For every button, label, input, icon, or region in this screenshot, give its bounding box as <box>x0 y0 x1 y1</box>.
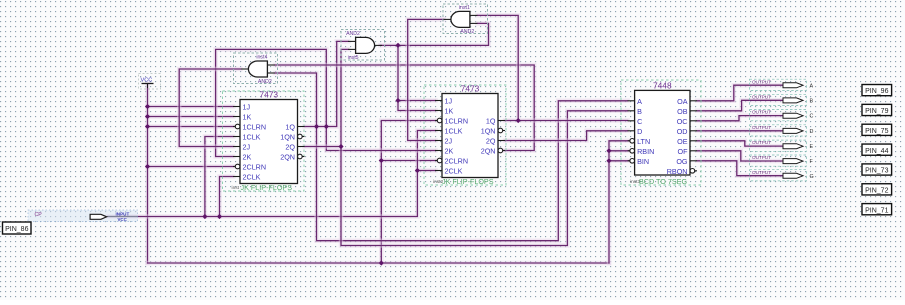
svg-text:VCC: VCC <box>118 217 128 222</box>
pin location box PIN_79 <box>862 104 892 115</box>
wire: VCC bottom bus <box>148 261 610 266</box>
junction: net A at chip 2K riser <box>324 124 329 129</box>
svg-text:PIN_73: PIN_73 <box>865 168 888 175</box>
svg-text:OB: OB <box>677 107 688 116</box>
wire: CP riser to chip1 1CLK <box>205 137 233 217</box>
output pin E <box>750 140 807 151</box>
7448 chip body <box>621 80 701 185</box>
pin 1K <box>233 116 240 118</box>
pin location box PIN_73 <box>862 164 892 175</box>
junction: gate2 output to chip2 1J <box>395 98 400 103</box>
svg-text:VCC: VCC <box>141 78 153 84</box>
output pin symbol C <box>783 113 803 118</box>
wire: VCC branch to 7448 BIN <box>609 159 629 164</box>
wire: VCC branch to chip1 2CLRN <box>148 164 235 169</box>
power symbol VCC <box>139 74 161 90</box>
pin 2QN <box>503 150 505 152</box>
wire: net D from chip2 2Q to 7448 D <box>505 131 628 141</box>
output pin symbol E <box>783 144 803 149</box>
svg-text:OUTPUT: OUTPUT <box>752 155 771 160</box>
pin 2K <box>233 156 240 158</box>
svg-text:A: A <box>637 97 642 106</box>
svg-text:2J: 2J <box>445 137 453 146</box>
svg-text:AND2: AND2 <box>460 29 474 35</box>
svg-text:BIN: BIN <box>637 157 649 166</box>
svg-text:OA: OA <box>677 97 688 106</box>
pin 2QN <box>302 156 304 158</box>
wire: VCC rail vertical from VCC symbol down to bottom VCC bus <box>145 84 150 263</box>
wire: CP riser to chip1 2CLK <box>220 177 234 217</box>
svg-text:E: E <box>810 144 814 150</box>
wire: net A from chip1 1Q to riser of gate2 input1 <box>305 41 349 126</box>
svg-text:OUTPUT: OUTPUT <box>752 110 771 115</box>
wire: 7448 OG to output pin G <box>697 161 783 176</box>
junction: CP to chip1 2CLK <box>217 214 222 219</box>
svg-text:AND2: AND2 <box>346 31 360 37</box>
svg-text:2CLK: 2CLK <box>243 173 261 182</box>
svg-text:LTN: LTN <box>637 137 650 146</box>
svg-text:A: A <box>810 83 814 89</box>
pin D <box>628 130 635 132</box>
junction: 7448 BIN tap <box>606 158 611 163</box>
wire: selected segment of CP wire at input pin <box>108 216 137 218</box>
svg-text:PIN_75: PIN_75 <box>865 128 888 135</box>
svg-text:1CLK: 1CLK <box>445 127 463 136</box>
svg-text:RBON: RBON <box>667 167 688 176</box>
svg-text:OD: OD <box>677 127 688 136</box>
output pin symbol D <box>783 128 803 133</box>
output pin C <box>750 110 807 121</box>
input pin symbol <box>90 214 107 219</box>
pin LTN <box>628 140 630 142</box>
pin 1Q <box>298 126 305 128</box>
pin OB <box>690 110 697 112</box>
pin location box PIN_44 <box>862 144 892 155</box>
svg-text:D: D <box>810 129 814 135</box>
pin location box PIN_71 <box>862 204 892 215</box>
svg-text:PIN_79: PIN_79 <box>865 108 888 115</box>
svg-text:7448: 7448 <box>653 81 672 91</box>
wire: net D-bar from chip2 2QN up to gate1 input1 <box>275 65 534 151</box>
svg-text:inst5: inst5 <box>348 55 359 61</box>
wire: 7448 OD to output pin D <box>697 129 783 134</box>
svg-text:1QN: 1QN <box>280 133 295 142</box>
svg-text:7473: 7473 <box>259 90 278 100</box>
svg-text:1CLRN: 1CLRN <box>243 123 267 132</box>
pin 2CLRN <box>233 166 235 168</box>
pin 2CLK <box>233 176 240 178</box>
pin 1Q <box>498 120 505 122</box>
pin A <box>628 100 635 102</box>
svg-text:PIN_96: PIN_96 <box>865 88 888 95</box>
pin 1QN <box>503 130 505 132</box>
wire: 7448 OE to output pin E <box>697 141 783 146</box>
wire: VCC branch to 7448 RBIN <box>609 149 629 154</box>
svg-text:7473: 7473 <box>461 84 480 94</box>
svg-text:1CLRN: 1CLRN <box>445 117 469 126</box>
output pin D <box>750 125 807 136</box>
svg-text:B: B <box>810 98 814 104</box>
wire: net C from chip2 1Q to 7448 C with tap up to gate3 input1 <box>477 15 627 120</box>
svg-text:OF: OF <box>678 147 689 156</box>
svg-text:BCD TO 7SEG: BCD TO 7SEG <box>639 177 687 186</box>
wire: net B from chip1 2Q up to gate2 input2 and down to bus toward 7448 B <box>305 49 628 245</box>
svg-text:1K: 1K <box>445 107 454 116</box>
junction: 7448 RBIN tap <box>606 148 611 153</box>
svg-text:OUTPUT: OUTPUT <box>752 125 771 130</box>
pin location box PIN_72 <box>862 184 892 195</box>
pin OD <box>690 130 697 132</box>
7473 chip body <box>424 85 506 185</box>
svg-text:2QN: 2QN <box>280 153 295 162</box>
pin 2CLRN <box>435 160 437 162</box>
junction: VCC bus to chip2 CLRN riser <box>379 260 384 265</box>
pin 2K <box>435 150 442 152</box>
wire: VCC branch to chip1 1K <box>148 114 234 119</box>
svg-text:RBIN: RBIN <box>637 147 654 156</box>
pin BIN <box>628 160 630 162</box>
pin location box PIN_86 for input <box>3 222 32 234</box>
pin 1QN <box>302 136 304 138</box>
svg-text:OC: OC <box>677 117 688 126</box>
junction: net C tap to gate3 input1 <box>516 118 521 123</box>
svg-text:inst1: inst1 <box>459 5 470 11</box>
pin C <box>628 120 635 122</box>
svg-text:1Q: 1Q <box>486 117 496 126</box>
wire: VCC riser to 7448 LTN <box>609 141 629 263</box>
pin 1K <box>435 110 442 112</box>
wire: VCC branch to chip1 1J <box>148 104 234 109</box>
pin B <box>628 110 635 112</box>
pin 1CLK <box>233 136 240 138</box>
pin RBON <box>695 170 697 172</box>
output pin symbol A <box>783 83 803 88</box>
pin RBIN <box>628 150 630 152</box>
wire: 7448 OF to output pin F <box>697 151 783 161</box>
pin 2Q <box>498 140 505 142</box>
output pin A <box>750 79 807 90</box>
pin 1CLK <box>435 130 442 132</box>
svg-text:inst: inst <box>232 185 240 191</box>
pin OG <box>690 160 697 162</box>
pin 1CLRN <box>233 126 235 128</box>
output pin B <box>750 94 807 105</box>
svg-text:1J: 1J <box>243 103 251 112</box>
svg-text:C: C <box>810 114 814 120</box>
svg-text:OUTPUT: OUTPUT <box>752 140 771 145</box>
output pin symbol F <box>783 159 803 164</box>
pin 2CLK <box>435 170 442 172</box>
svg-text:OUTPUT: OUTPUT <box>752 94 771 99</box>
pin OC <box>690 120 697 122</box>
7473 chip body <box>223 91 305 191</box>
svg-text:D: D <box>637 127 642 136</box>
pin 2J <box>233 146 240 148</box>
svg-text:2K: 2K <box>445 147 454 156</box>
svg-text:OUTPUT: OUTPUT <box>752 79 771 84</box>
svg-text:OUTPUT: OUTPUT <box>752 170 771 175</box>
junction: VCC to 1K <box>145 114 150 119</box>
AND gate inst4 (mirrored, feeds chip1 2J) <box>234 53 278 84</box>
svg-text:2Q: 2Q <box>486 137 496 146</box>
svg-text:JK FLIP-FLOPS: JK FLIP-FLOPS <box>241 183 293 192</box>
input pin CP (selected) <box>28 210 138 222</box>
AND gate inst5 (feeds chip2 1J 1K) <box>341 30 385 61</box>
svg-text:PIN_44: PIN_44 <box>865 148 888 155</box>
svg-text:PIN_71: PIN_71 <box>865 207 888 214</box>
svg-text:1CLK: 1CLK <box>243 133 261 142</box>
output pin G <box>750 170 807 181</box>
junction: chip2 2CLRN tap <box>379 158 384 163</box>
output pin F <box>750 155 807 166</box>
pin 1CLRN <box>435 120 437 122</box>
wire: VCC branch to chip1 1CLRN <box>148 124 235 129</box>
svg-text:2J: 2J <box>243 143 251 152</box>
svg-text:CP: CP <box>35 212 43 218</box>
wire: VCC branch to chip2 2CLRN <box>381 158 436 163</box>
wire: CP branch to chip2 2CLK <box>417 168 435 173</box>
svg-text:2CLRN: 2CLRN <box>243 163 267 172</box>
svg-text:G: G <box>810 174 814 180</box>
AND gate inst1 (mirrored, feeds chip2 2J) <box>443 4 488 34</box>
svg-text:2Q: 2Q <box>285 143 295 152</box>
svg-text:OG: OG <box>676 157 688 166</box>
pin OE <box>690 140 697 142</box>
junction: net A at gate1 input2 riser <box>314 124 319 129</box>
svg-text:2CLK: 2CLK <box>445 167 463 176</box>
wire: 7448 OB to output pin B <box>697 100 783 111</box>
svg-text:1QN: 1QN <box>481 127 496 136</box>
junction: net B at gate2 input2 riser <box>338 144 343 149</box>
svg-text:INPUT: INPUT <box>116 211 130 216</box>
wire: 7448 OA to output pin A <box>697 85 783 101</box>
svg-text:AND2: AND2 <box>258 79 272 85</box>
wire: 7448 OC to output pin C <box>697 116 783 121</box>
svg-text:inst4: inst4 <box>256 55 267 61</box>
wire: net A branch over gate1 to chip1 2K and down to chip2 2K <box>216 49 436 156</box>
junction: CP to chip2 2CLK <box>415 168 420 173</box>
pin 1J <box>435 100 442 102</box>
svg-text:B: B <box>637 107 642 116</box>
svg-text:1Q: 1Q <box>285 123 295 132</box>
svg-text:PIN_72: PIN_72 <box>865 187 888 194</box>
svg-text:JK FLIP-FLOPS: JK FLIP-FLOPS <box>442 177 494 186</box>
wire: gate3 output to chip2 2J <box>408 19 444 140</box>
svg-text:OE: OE <box>677 137 688 146</box>
wire: gate2 output junction feeding chip2 1J 1K and gate3 input2 <box>380 23 488 110</box>
pin location box PIN_96 <box>862 85 892 96</box>
junction: CP to chip1 1CLK <box>202 214 207 219</box>
pin location box PIN_75 <box>862 124 892 135</box>
pin 2J <box>435 140 442 142</box>
wire: VCC riser to chip2 CLRN pins <box>381 121 436 264</box>
output pin symbol B <box>783 98 803 103</box>
output pin symbol G <box>783 173 803 178</box>
svg-text:2K: 2K <box>243 153 252 162</box>
svg-text:1J: 1J <box>445 97 453 106</box>
junction: VCC to 1J <box>145 104 150 109</box>
pin OF <box>690 150 697 152</box>
junction: VCC to 2CLRN <box>145 164 150 169</box>
wire: clock net CP from input pin along bottom then up to chip2 1CLK <box>108 131 436 217</box>
pin 1J <box>233 106 240 108</box>
wire: gate1 output to chip1 2J <box>179 69 240 147</box>
pin 2Q <box>298 146 305 148</box>
svg-text:PIN_86: PIN_86 <box>5 226 28 233</box>
svg-text:2QN: 2QN <box>481 147 496 156</box>
pin OA <box>690 100 697 102</box>
junction: gate2 output node <box>395 43 400 48</box>
junction: VCC to 1CLRN <box>145 124 150 129</box>
svg-text:1K: 1K <box>243 113 252 122</box>
svg-text:2CLRN: 2CLRN <box>445 157 469 166</box>
svg-text:C: C <box>637 117 642 126</box>
wire: net A riser up to gate1 input2 and down to bus toward 7448 A <box>275 73 628 241</box>
